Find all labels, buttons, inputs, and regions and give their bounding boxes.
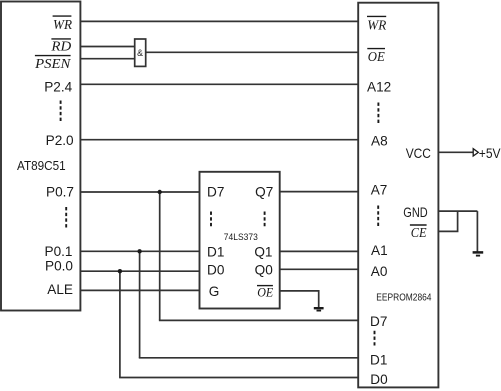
ellipsis D7-D1 pins [374,331,376,346]
pin label PSEN U1 [34,56,71,73]
pin label WR U1 [53,16,73,33]
svg-text:Q0: Q0 [255,262,274,277]
pin label RD U1 [50,39,71,55]
IC U1 AT89C51 box [1,2,80,311]
pin label CE U3 [410,225,427,241]
wire gate output to OE [146,51,359,53]
svg-text:P0.7: P0.7 [46,185,74,200]
svg-text:&: & [137,48,143,58]
IC U3 EEPROM2864 box [358,3,438,388]
ellipsis P2 pins [60,101,62,122]
wire P0.0 branch vertical [119,271,121,377]
wire D0 bus to EEPROM [119,377,358,379]
svg-text:74LS373: 74LS373 [224,232,258,243]
pin label OE latch [257,285,273,300]
junction node P0.7/D7 [158,190,162,194]
svg-text:A8: A8 [371,133,388,148]
wire Q1 to A1 [280,250,359,252]
svg-text:A1: A1 [371,243,388,258]
svg-text:PSEN: PSEN [34,57,71,72]
wire ground drop [476,211,478,252]
svg-text:P0.1: P0.1 [45,244,73,259]
pin label WR U3 [367,16,387,33]
ellipsis A7-A1 pins [377,206,379,227]
svg-text:+5V: +5V [479,145,501,161]
wire P0.1 branch vertical [139,251,141,357]
svg-text:WR: WR [53,18,72,33]
svg-text:VCC: VCC [406,146,431,161]
wire D1 bus to EEPROM [139,357,358,359]
svg-text:A7: A7 [371,183,388,198]
IC U2 74LS373 latch box [200,172,280,309]
svg-text:P0.0: P0.0 [45,258,73,273]
VCC arrow to +5V [473,149,478,156]
ground symbol at CE/GND [473,252,484,255]
ellipsis P0 pins [65,207,67,228]
wire Q7 to A7 [280,191,359,193]
svg-text:D1: D1 [207,244,224,259]
svg-text:Q1: Q1 [254,244,272,259]
svg-text:OE: OE [368,50,385,65]
wire RD to gate input [80,46,134,48]
svg-text:A0: A0 [371,264,388,279]
wire P0.0 to D0 latch [80,270,199,272]
ground symbol at latch OE [314,308,324,310]
wire P0.1 to D1 latch [80,250,199,252]
wire CE stub [438,211,457,231]
svg-text:D7: D7 [370,314,387,329]
ellipsis latch D pins [210,212,212,229]
svg-text:GND: GND [403,205,428,220]
svg-text:RD: RD [50,40,71,55]
svg-text:P2.0: P2.0 [46,133,74,148]
wire Q0 to A0 [280,268,359,270]
svg-text:EEPROM2864: EEPROM2864 [376,293,432,304]
junction node P0.1/D1 [137,249,141,253]
svg-text:D1: D1 [370,353,387,368]
svg-text:D0: D0 [207,262,225,277]
svg-text:D0: D0 [370,372,388,387]
svg-text:P2.4: P2.4 [44,79,72,94]
pin label OE U3 [367,49,385,65]
ellipsis A12-A8 pins [377,103,379,124]
wire P0.7 to D7 latch [80,191,199,193]
wire PSEN to gate input [80,58,134,60]
AND gate U4 box [135,39,146,66]
svg-text:OE: OE [257,285,273,300]
wire P2.0 to A8 [80,139,358,141]
wire GND stub [438,210,477,212]
svg-text:A12: A12 [367,80,391,95]
svg-text:CE: CE [411,226,427,241]
junction node P0.0/D0 [118,269,122,273]
wire D7 bus to EEPROM [159,319,358,321]
ellipsis latch Q pins [264,212,266,229]
wire ALE to G [80,289,199,291]
wire VCC stub [438,151,473,153]
svg-text:Q7: Q7 [255,184,273,199]
wire latch OE to ground [280,291,319,307]
svg-text:D7: D7 [207,184,224,199]
svg-text:AT89C51: AT89C51 [17,158,66,173]
wire WR net [80,20,358,22]
svg-text:WR: WR [367,18,386,33]
wire P0.7 branch vertical [159,192,161,320]
svg-text:G: G [209,284,220,299]
wire P2.4 to A12 [80,83,358,85]
svg-text:ALE: ALE [47,282,73,297]
